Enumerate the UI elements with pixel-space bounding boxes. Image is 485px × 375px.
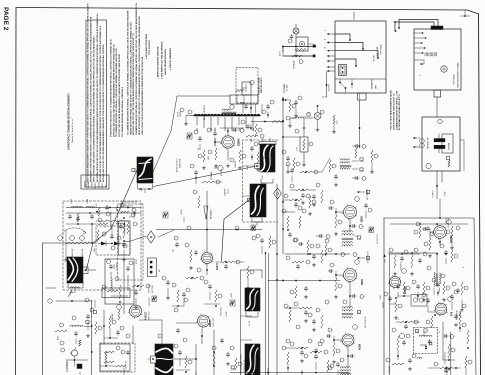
note text: coil resistance and control rotation notes (127, 3, 144, 135)
audio output tube V9 25BK5 (220, 135, 240, 150)
IF amp tube V12 6CB6 (341, 333, 362, 350)
coil L15 (111, 278, 112, 290)
svg-text:SERIES: SERIES (99, 181, 101, 188)
plate wire IF3 (347, 346, 354, 367)
plate wire IF2 (349, 282, 364, 308)
chart box B1 pin lines with arrows (324, 29, 336, 72)
resistor R14 (119, 285, 121, 299)
IF canister enclosure box (243, 140, 279, 222)
resistor R22 (193, 190, 200, 208)
svg-text:2-5: 2-5 (106, 185, 108, 188)
vert amp tube V6 6CG7 (128, 304, 151, 320)
svg-text:M1: M1 (159, 270, 161, 273)
svg-text:447: 447 (173, 249, 175, 252)
resistor R2 (78, 242, 90, 244)
svg-text:2ND VIDEO IF: 2ND VIDEO IF (368, 252, 370, 263)
ground heater (302, 163, 305, 166)
svg-text:THE VOLTAGE MEASUREMENTS TAKEN: THE VOLTAGE MEASUREMENTS TAKEN WITH VTVM… (86, 3, 89, 182)
label sound IF amp (401, 262, 403, 270)
svg-text:A PHOTOFACT STANDARD NOTATION: A PHOTOFACT STANDARD NOTATION SCHEMATIC (68, 93, 71, 150)
svg-text:TO PIN 8: TO PIN 8 (433, 191, 435, 198)
screen resistors IF strip (312, 183, 323, 331)
note text: denotes chassis ground legend (157, 41, 173, 79)
quadrature coil box (399, 322, 443, 360)
svg-text:CLIPPER: CLIPPER (117, 262, 119, 270)
circled ref 30 (188, 110, 266, 114)
svg-text:TOP VIEW: TOP VIEW (381, 43, 383, 55)
plate components IF1 (349, 219, 363, 232)
connector J1 in chart box (339, 65, 347, 76)
chart box B1 label TOP VIEW (373, 43, 383, 61)
IF transformer T2 terminals (255, 164, 265, 180)
label to tuner B plus (282, 83, 289, 101)
svg-text:25HX5 SER: 25HX5 SER (180, 158, 182, 168)
IF amp tube V10 6BZ6 (342, 204, 364, 222)
IF transformer T3 bracket (252, 218, 262, 231)
label vert out (149, 296, 151, 306)
wires CRT bottom (66, 356, 88, 366)
circled ref 14 (107, 260, 134, 282)
boxed ref D (357, 256, 370, 259)
vert section box (100, 344, 130, 371)
AGC line components (282, 209, 306, 242)
resistor R31 (102, 285, 118, 292)
box1 lower wires (340, 79, 353, 93)
wire sound top bus (390, 223, 468, 249)
wire instant on to sound box (439, 199, 441, 219)
wire 117V line A (283, 46, 317, 48)
chart box B1 internal wiring (335, 34, 379, 67)
IF transformer T3 canister (250, 184, 266, 217)
svg-text:300Ω LINE: 300Ω LINE (82, 248, 84, 257)
wire output transformer to speaker (153, 167, 255, 187)
notes box with numbered service notes (86, 3, 107, 187)
VHF tuner lower enclosure (241, 270, 263, 375)
svg-text:2.2 MEG: 2.2 MEG (221, 169, 223, 176)
vert out tube V7 12AZ7A (196, 314, 215, 329)
tube V8 components (416, 222, 434, 257)
svg-text:L2: L2 (439, 331, 441, 333)
tuner box internals (64, 212, 127, 261)
wire horizontal mid bus (156, 229, 262, 231)
sound box inner right border (446, 218, 477, 375)
wire box1 tab to IF input (359, 100, 361, 148)
resistor R35 in box (297, 137, 309, 152)
pilot lamp I2 (314, 113, 321, 120)
circled ref diode box (111, 236, 121, 244)
IF transformer T6 (342, 307, 361, 318)
page border right edge (479, 14, 481, 375)
resistor R33 (213, 352, 215, 366)
label 300 ohm line A (72, 248, 74, 257)
svg-text:THE VOLTAGE MEASUREMENTS TAKEN: THE VOLTAGE MEASUREMENTS TAKEN (390, 90, 393, 130)
svg-text:TYPE SOURCE: TYPE SOURCE (149, 39, 151, 55)
svg-text:VOLUME: VOLUME (211, 171, 213, 180)
sync components (120, 203, 136, 261)
wire AGC upper (91, 225, 93, 244)
svg-text:6AQ5A: 6AQ5A (450, 235, 453, 243)
boxed ref A speaker wire (132, 168, 136, 171)
VHF tuner enclosure dashed box (63, 201, 141, 290)
volume takeoff components (386, 328, 416, 374)
svg-text:NORMAL: NORMAL (448, 142, 451, 150)
waveform sync (163, 212, 256, 231)
boxed ref B canister (247, 198, 251, 201)
wire bus top (251, 121, 283, 123)
svg-text:APPLIED LINE 117V AC THE VOLTA: APPLIED LINE 117V AC THE VOLTAGE MEASURE… (102, 43, 105, 182)
heater area extras (256, 100, 291, 123)
CRT dashed box (100, 343, 135, 372)
sound takeoff components (389, 248, 427, 275)
svg-text:45-42: 45-42 (228, 190, 230, 194)
mid IF dense row 2 (283, 194, 316, 215)
svg-text:VERT LIN: VERT LIN (126, 360, 128, 369)
feed box R31b (102, 288, 130, 298)
right of IF cluster (352, 144, 378, 218)
svg-text:SECTION: SECTION (152, 284, 154, 293)
grid components IF2 (328, 263, 343, 298)
IF transformer T7 (340, 367, 351, 375)
circled ref 35 (295, 129, 313, 146)
wire bus horizontal 280 (268, 280, 340, 282)
chart box B2 mounting tab (434, 90, 441, 97)
cluster c21 (282, 150, 300, 173)
label +250V (181, 209, 184, 222)
circled ref 21 (230, 105, 234, 109)
tuner canister L41 (245, 344, 260, 375)
wire UHF box to filament row (250, 103, 252, 113)
power transformer T1 core (222, 109, 236, 113)
svg-text:APPLIED LINE 117V AC THE VOLTA: APPLIED LINE 117V AC THE VOLTAGE MEASURE… (99, 25, 102, 182)
note text: PHOTOFACT standard notation credit (68, 93, 75, 150)
svg-text:WITH VTVM FROM TUBE SOCKET TO: WITH VTVM FROM TUBE SOCKET TO COMMON NEG… (138, 16, 141, 135)
sound mid extras (412, 280, 458, 310)
plus caps (397, 266, 465, 320)
svg-text:SOUND IF: SOUND IF (457, 309, 459, 320)
wire from plug P2 to chassis (394, 20, 438, 33)
tube V14 in placement chart (419, 66, 448, 76)
svg-text:TO COMMON NEGATIVE RETURN ALL: TO COMMON NEGATIVE RETURN ALL CONTROLS A… (115, 48, 118, 137)
label minus 24V (383, 254, 386, 263)
svg-text:SOUND OUT: SOUND OUT (448, 216, 450, 228)
capacitor C32 (220, 338, 223, 343)
interlock extra (282, 34, 312, 57)
coupling capacitor C40 (213, 131, 216, 136)
wire AGC vertical bus (276, 184, 278, 375)
circled ref 5 (85, 298, 89, 302)
svg-text:AT NORMAL NO SIGNAL APPLIED LI: AT NORMAL NO SIGNAL APPLIED LI (398, 94, 401, 130)
wire bus horizontal 254 (285, 253, 350, 255)
svg-text:WITH VTVM FROM TUBE SOCKET TO: WITH VTVM FROM TUBE SOCKET TO COMMON NEG… (92, 36, 95, 182)
chart box B1 outline (335, 21, 386, 93)
mid cluster y245 left (256, 234, 276, 254)
bottom edge stubs (80, 330, 348, 375)
resistor R70 (448, 160, 450, 167)
audio out coupling (443, 334, 455, 370)
svg-text:6CB6: 6CB6 (359, 343, 362, 350)
sound section box outline (384, 218, 474, 375)
diode X1 (98, 242, 112, 246)
vert osc components (185, 243, 208, 275)
resistor R8 AGC (55, 323, 67, 340)
cluster c2 video amp (290, 184, 316, 204)
capacitor C31 (176, 328, 179, 333)
UHF tuner dashed box (236, 68, 263, 104)
IF transformer T2 canister (259, 138, 276, 172)
wire B+ vertical bus (282, 97, 284, 254)
instant on refs (420, 119, 450, 168)
coil L32 with terminal S (292, 111, 311, 118)
svg-text:C1: C1 (130, 216, 132, 218)
svg-text:CHASSIS: CHASSIS (224, 188, 227, 196)
boxed ref H (93, 300, 96, 314)
cluster c5 components (284, 302, 312, 322)
svg-text:WITH VTVM FROM TUBE SOCKET TO: WITH VTVM FROM TUBE SOCKET TO (393, 93, 395, 130)
pilot lamp I1 (293, 24, 299, 34)
IF amp tube V11 6BZ6 (342, 267, 364, 285)
oscillator coil L5 canister (67, 257, 83, 283)
svg-text:6BZ: 6BZ (211, 128, 213, 131)
terminal lug E1 (313, 45, 315, 47)
sound bottom cluster (428, 356, 472, 375)
svg-text:TUNER: TUNER (92, 181, 94, 188)
sync separator box (118, 204, 144, 280)
svg-text:VOLUME: VOLUME (389, 365, 391, 374)
label 117V 60Hz line (280, 47, 285, 56)
resistor R41 grid (215, 148, 217, 160)
svg-text:FUSIBLE: FUSIBLE (294, 60, 296, 69)
height control R30 (112, 305, 121, 320)
svg-text:TARZIAN: TARZIAN (87, 180, 90, 188)
svg-text:25BK5: 25BK5 (238, 138, 241, 146)
svg-text:● CIRCUIT BREAKER: ● CIRCUIT BREAKER (169, 48, 172, 70)
resistor R9 (60, 340, 81, 346)
wire CRT diagonal (222, 198, 252, 261)
svg-text:VTVM FROM TUBE SOCKET TO COMMO: VTVM FROM TUBE SOCKET TO COMMON NEGATIVE… (110, 39, 113, 137)
capacitor C21 (244, 104, 247, 109)
svg-text:6BZ6: 6BZ6 (361, 215, 364, 222)
svg-text:B+ 140V: B+ 140V (286, 84, 288, 91)
svg-text:SYNC: SYNC (136, 258, 138, 264)
svg-text:"Howard W. Sams & Co., Inc.": "Howard W. Sams & Co., Inc." (71, 117, 74, 143)
vert output transformer T4 (155, 344, 173, 375)
vert left wires (103, 310, 124, 344)
svg-text:AUDIO OUTPUT: AUDIO OUTPUT (176, 158, 179, 172)
boxed ref R vert (231, 366, 235, 369)
cluster c3 components (294, 238, 314, 255)
svg-text:TO PIN 12: TO PIN 12 (67, 361, 69, 369)
svg-text:12AZ7: 12AZ7 (216, 262, 219, 270)
discriminator inner box (411, 295, 427, 307)
sound IF amp tube V13 6AU6 (388, 275, 407, 294)
circled refs scatter IF (286, 239, 357, 370)
resistor R50 (355, 148, 357, 158)
circled refs on tuner bus (58, 236, 85, 241)
wires audio section (214, 128, 228, 160)
IF input transformer T8 (340, 158, 364, 171)
sound IF transformer T9 (427, 266, 445, 295)
mid IF dense row 3 (316, 234, 332, 256)
sync lower bits (132, 284, 150, 309)
svg-text:HEIGHT: HEIGHT (112, 312, 114, 320)
label chassis col (224, 188, 230, 196)
label standard coil (240, 353, 246, 375)
chart box B2 label TUBE PLACEMENT (454, 62, 460, 88)
svg-text:LINE 117V AC THE VOLTAGE MEASU: LINE 117V AC THE VOLTAGE MEASUREMENTS TA… (141, 56, 144, 135)
sound box cluster extra1 (396, 282, 410, 298)
sound box cluster extra3 (396, 320, 420, 329)
svg-text:117V.: 117V. (280, 50, 282, 56)
svg-text:L3: L3 (105, 226, 107, 228)
vert output transformer terminal (148, 356, 156, 363)
note text: required from new source (145, 34, 151, 59)
CRT section boundary (42, 243, 44, 375)
sound box inner top wire (388, 252, 438, 254)
svg-text:LINE CONN: LINE CONN (377, 46, 379, 57)
note text: power schematic reference (390, 90, 402, 130)
test point M1 connector (148, 258, 162, 293)
svg-text:SOUND IF: SOUND IF (401, 262, 403, 270)
sync box internals (119, 202, 138, 314)
svg-text:+ DENOTES CHASSIS GROUND: + DENOTES CHASSIS GROUND (157, 46, 160, 79)
svg-text:TUNER 2-5 13: TUNER 2-5 13 (244, 360, 246, 372)
vert osc tube V5 12AZ7 (200, 251, 219, 270)
svg-text:MODEL: MODEL (95, 182, 97, 188)
svg-text:+250V: +250V (181, 209, 183, 215)
svg-text:COMMON NEGATIVE RETURN ALL CON: COMMON NEGATIVE RETURN ALL CONTROLS AT N… (135, 3, 138, 135)
wire R31 feed (282, 136, 300, 138)
svg-text:117V AC THE VOLTAGE MEASUREMEN: 117V AC THE VOLTAGE MEASUREMENTS TAKEN W… (118, 53, 121, 137)
svg-text:USED SEE PHOTO: USED SEE PHOTO (261, 77, 263, 93)
svg-text:TO PIN 3: TO PIN 3 (329, 84, 331, 91)
tuner canister L40 (245, 288, 260, 311)
label 6CB6 IF3 extra (365, 317, 367, 328)
audio top extra (250, 142, 264, 171)
page border top edge (16, 8, 478, 14)
wire tuner bus double (266, 253, 269, 375)
boxed ref E (357, 190, 370, 193)
page border left edge (15, 8, 18, 375)
mid bottom extra (310, 350, 344, 375)
oscillator coil terminal (83, 267, 92, 274)
svg-text:APPLIED LINE 117V AC THE VOLTA: APPLIED LINE 117V AC THE VOLTAGE MEASURE… (132, 33, 135, 135)
wire box2 to instant on (436, 97, 438, 117)
phase detector diamond (147, 231, 155, 243)
audio cluster around V9 (187, 127, 264, 176)
wire speaker feed diagonal (153, 96, 230, 172)
svg-text:COMMON NEGATIVE RETURN ALL CON: COMMON NEGATIVE RETURN ALL CON (395, 90, 398, 130)
AGC gate dashed box (96, 226, 130, 255)
cluster c20 below UHF (241, 120, 262, 136)
circled refs mid (174, 226, 256, 240)
wires vert section (133, 320, 203, 375)
svg-text:● SEE PARTS LIST FOR ALTERNATE: ● SEE PARTS LIST FOR ALTERNATE (161, 41, 164, 79)
IF transformer T5 (342, 231, 361, 246)
svg-text:+140V: +140V (380, 294, 382, 300)
svg-text:5-13: 5-13 (264, 188, 266, 191)
tuner bracket (246, 312, 258, 326)
terminal lug E2 (313, 55, 315, 57)
svg-text:5-13: 5-13 (262, 176, 264, 179)
vert lower cluster (174, 344, 242, 373)
sound components c10 (380, 292, 402, 319)
svg-text:300Ω LINE: 300Ω LINE (72, 248, 74, 257)
filament winding L30 scalloped bar (194, 114, 260, 116)
resistor R60 surge (295, 48, 306, 50)
svg-text:TAKEN WITH VTVM FROM TUBE SOCK: TAKEN WITH VTVM FROM TUBE SOCKET TO COMM… (89, 16, 92, 182)
audio power tube V8 6AQ5A (432, 225, 453, 243)
label 300 ohm line B (82, 248, 84, 257)
svg-text:TO COMMON NEGATIVE RETURN ALL: TO COMMON NEGATIVE RETURN ALL CONTROLS A… (127, 10, 130, 135)
sound box cluster extra4 (454, 304, 466, 332)
svg-text:TAKEN WITH VTVM FROM TUBE SOCK: TAKEN WITH VTVM FROM TUBE SOCKET TO COMM… (129, 22, 132, 135)
chart box B2 pin lines (414, 32, 426, 65)
svg-text:+250V: +250V (231, 292, 233, 298)
tuner label box (81, 175, 109, 189)
svg-text:4-6CG7: 4-6CG7 (145, 311, 148, 320)
peaking coil L9 (70, 316, 92, 327)
label audio output col (176, 158, 182, 172)
label speaker bracket (138, 184, 153, 193)
svg-text:+250V: +250V (226, 311, 228, 317)
svg-text:VERT OSC: VERT OSC (213, 317, 215, 327)
switch contacts S2 (434, 134, 445, 153)
wire 117V line B (283, 55, 314, 57)
vert area extra row (216, 260, 254, 289)
retrace amplifier stub (204, 191, 213, 252)
svg-text:SYNC: SYNC (114, 264, 116, 269)
svg-text:50C5: 50C5 (208, 156, 210, 160)
ground audio (214, 164, 229, 167)
resistor R33b (332, 115, 338, 133)
diode X2 (114, 242, 126, 246)
svg-text:APPLIED LINE 117V AC THE VOLTA: APPLIED LINE 117V AC THE VOLTAGE MEASURE… (112, 44, 115, 137)
svg-text:6BZ6: 6BZ6 (361, 278, 364, 285)
antenna loop arc (62, 228, 86, 234)
chart box B1 mounting tab (358, 93, 367, 100)
wire T9 to detector (436, 253, 438, 272)
coil L31 (240, 102, 245, 113)
cluster below audio (190, 164, 222, 184)
svg-text:3RD VIDEO IF: 3RD VIDEO IF (365, 317, 367, 328)
svg-text:6BZ: 6BZ (225, 128, 227, 131)
svg-text:OUTPUT: OUTPUT (235, 161, 237, 168)
svg-text:6BZ: 6BZ (253, 128, 255, 131)
svg-text:● REQUIRED FROM NEW: ● REQUIRED FROM NEW (145, 34, 148, 59)
wires video box (111, 272, 128, 303)
B plus top cluster (282, 96, 302, 117)
svg-text:12AZ7: 12AZ7 (209, 319, 212, 327)
svg-text:8 V10: 8 V10 (445, 192, 447, 196)
sound detector tube V14 6T8 (434, 302, 454, 316)
AGC wire vertical (91, 300, 93, 375)
capacitor C15 (126, 266, 129, 271)
audio area extra labels (198, 137, 253, 168)
capacitor C14 (109, 264, 112, 269)
resistor R61 fusible (292, 55, 302, 57)
svg-text:TOP VIEW: TOP VIEW (454, 73, 456, 85)
pilot lamp branch (288, 105, 324, 131)
chart box B2 outline (414, 29, 461, 90)
vert mid cluster (162, 276, 204, 307)
circled letters near tube labels (353, 197, 453, 330)
capacitor C9 (74, 331, 77, 344)
cluster c4 components (286, 256, 310, 298)
label pilot light small (178, 112, 183, 117)
mid IF dense row 1 (286, 158, 338, 186)
resistor R1 (66, 242, 78, 244)
svg-text:PAGE 2: PAGE 2 (2, 7, 9, 31)
